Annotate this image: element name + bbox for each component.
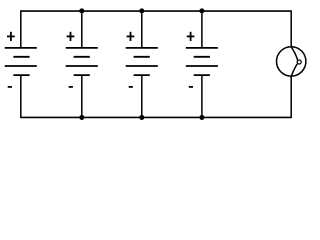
lamp filament lower curve: [291, 64, 297, 78]
battery B1 long plate top: [5, 47, 37, 49]
battery B2: [66, 11, 98, 117]
battery B3 short plate bottom: [134, 74, 150, 76]
battery B3 long plate lower: [126, 65, 158, 67]
battery B1 short plate bottom: [13, 74, 29, 76]
battery B1: [5, 10, 37, 118]
label B1 plus: [7, 32, 15, 41]
label B4 plus: [187, 32, 195, 41]
junction dot bottom B4: [199, 115, 204, 120]
battery B2 short plate bottom: [74, 74, 90, 76]
battery B2 long plate top: [66, 47, 98, 49]
wire lamp top lead: [290, 10, 292, 47]
battery B4 long plate lower: [186, 65, 218, 67]
battery B4 short plate bottom: [194, 74, 210, 76]
battery B2 long plate lower: [66, 65, 98, 67]
battery B4 long plate top: [186, 47, 218, 49]
junction dot top B4: [199, 8, 204, 13]
wire B1 top lead: [20, 10, 22, 48]
wire B4 bottom lead: [201, 75, 203, 117]
label B2 minus: [69, 86, 73, 88]
wire bottom bus: [21, 116, 291, 118]
label B2 plus: [67, 32, 75, 41]
junction dot bottom B3: [139, 115, 144, 120]
wire B3 bottom lead: [141, 75, 143, 117]
battery B1 short plate: [13, 56, 29, 58]
wire B2 top lead: [81, 11, 83, 48]
lamp L1: [277, 47, 306, 78]
wire top bus: [21, 10, 291, 12]
battery B1 long plate lower: [5, 65, 37, 67]
wire B2 bottom lead: [81, 75, 83, 117]
label B4 minus: [189, 86, 193, 88]
battery B4 short plate: [194, 56, 210, 58]
label B3 plus: [127, 32, 135, 41]
label B3 minus: [129, 86, 133, 88]
junction dot top B2: [79, 8, 84, 13]
lamp filament upper curve: [291, 47, 298, 60]
wire B4 top lead: [201, 11, 203, 48]
battery B3 long plate top: [126, 47, 158, 49]
junction dot top B3: [139, 8, 144, 13]
wire lamp bottom lead: [290, 76, 292, 118]
junction dot bottom B2: [79, 115, 84, 120]
battery B3: [126, 11, 158, 117]
battery B3 short plate: [134, 56, 150, 58]
wire B1 bottom lead: [20, 75, 22, 118]
lamp filament loop: [297, 60, 301, 64]
battery B2 short plate: [74, 56, 90, 58]
battery B4: [186, 11, 218, 117]
wire B3 top lead: [141, 11, 143, 48]
label B1 minus: [8, 86, 12, 88]
